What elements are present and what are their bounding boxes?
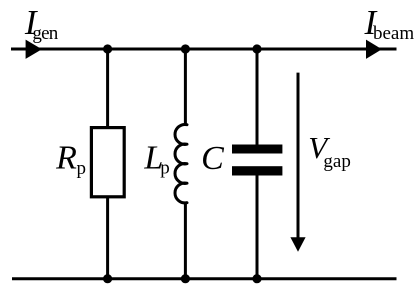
svg-text:C: C — [201, 140, 224, 177]
wire L top — [184, 49, 187, 125]
node dot bottom C — [252, 274, 261, 283]
wire C bottom — [256, 175, 259, 279]
inductor L_p coil — [175, 124, 187, 203]
node dot top L — [181, 44, 190, 53]
svg-text:p: p — [160, 158, 170, 179]
svg-text:p: p — [77, 158, 87, 179]
V_gap arrowhead — [290, 237, 305, 252]
I_gen arrowhead — [26, 40, 42, 59]
wire R top — [106, 49, 109, 129]
svg-text:R: R — [55, 140, 77, 177]
svg-text:gap: gap — [323, 151, 350, 172]
node dot top R — [103, 44, 112, 53]
wire R bottom — [106, 196, 109, 279]
node dot bottom R — [103, 274, 112, 283]
top rail wire — [11, 48, 397, 51]
bottom rail wire — [12, 277, 397, 280]
V_gap arrow line — [297, 73, 300, 239]
node dot bottom L — [181, 274, 190, 283]
resistor R_p body — [91, 128, 124, 197]
capacitor C top plate — [232, 145, 282, 154]
capacitor C bottom plate — [232, 166, 282, 175]
node dot top C — [252, 44, 261, 53]
wire C top — [256, 49, 259, 145]
wire L bottom — [184, 203, 187, 279]
svg-text:gen: gen — [32, 23, 58, 44]
I_beam arrowhead — [366, 40, 382, 59]
svg-text:beam: beam — [373, 23, 414, 44]
